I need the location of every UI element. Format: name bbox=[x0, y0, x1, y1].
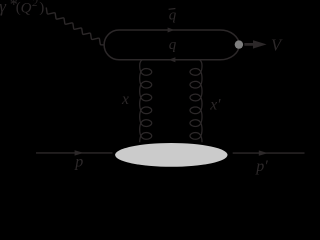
gluon line (right, momentum fraction x') bbox=[190, 60, 202, 143]
vertex dot (meson formation) bbox=[235, 40, 243, 48]
svg-text:V: V bbox=[271, 36, 283, 55]
svg-text:q: q bbox=[169, 37, 177, 53]
svg-text:): ) bbox=[39, 0, 44, 16]
svg-text:p′: p′ bbox=[255, 158, 268, 175]
proton line out (right) bbox=[233, 152, 305, 154]
svg-text:q: q bbox=[169, 8, 177, 24]
bold arrow to V bbox=[244, 40, 266, 48]
quark loop (stadium) bbox=[104, 30, 239, 60]
svg-text:p: p bbox=[74, 154, 83, 171]
blob (proton GPD) bbox=[115, 143, 227, 167]
arrow on outgoing proton line bbox=[259, 150, 268, 155]
photon wavy line gamma* bbox=[46, 7, 104, 44]
arrow on quark line (bottom, leftward) bbox=[169, 57, 176, 62]
svg-text:γ: γ bbox=[0, 0, 7, 16]
svg-text:x: x bbox=[121, 91, 129, 108]
proton line in (left) bbox=[36, 152, 113, 154]
arrow on incoming proton line bbox=[75, 150, 84, 155]
arrow on antiquark line (top, rightward) bbox=[168, 28, 175, 33]
label gamma*(Q^2) bbox=[0, 0, 44, 16]
svg-text:x′: x′ bbox=[209, 96, 221, 113]
svg-text:Q: Q bbox=[21, 0, 32, 16]
gluon line (left, momentum fraction x) bbox=[140, 60, 152, 143]
svg-text:2: 2 bbox=[32, 0, 38, 9]
